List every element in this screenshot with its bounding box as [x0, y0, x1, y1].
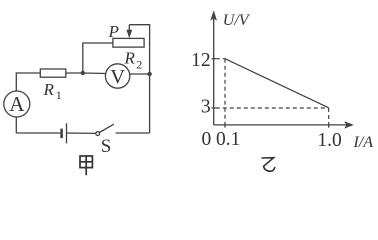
svg-text:P: P: [108, 22, 119, 41]
wire R1 to node A: [66, 72, 83, 74]
label jia (caption of circuit): [80, 156, 92, 175]
switch S pivot: [96, 132, 100, 136]
wire ammeter bottom: [15, 117, 17, 133]
svg-text:I/A: I/A: [353, 134, 374, 151]
svg-text:0.1: 0.1: [216, 129, 240, 150]
graph axes: [212, 17, 347, 128]
svg-text:A: A: [9, 92, 25, 116]
dashed vertical at I=0.1: [224, 59, 226, 125]
wire voltmeter to right vertical: [130, 73, 150, 75]
resistor R1: [40, 69, 66, 77]
wire slider stem: [128, 25, 130, 32]
tick x=1.0: [328, 125, 330, 128]
y-axis U: [213, 17, 215, 125]
wire node A to voltmeter: [83, 72, 106, 75]
svg-text:S: S: [101, 136, 112, 157]
dashed horizontal at U=3: [216, 107, 329, 109]
svg-text:U/V: U/V: [223, 12, 251, 29]
wire battery to switch: [67, 132, 96, 134]
wire switch to right corner: [116, 132, 150, 134]
switch S lever: [99, 124, 114, 132]
wire bottom left: [16, 132, 60, 134]
wire left top horizontal (R1 row, left segment): [16, 73, 40, 91]
y-axis arrowhead: [210, 10, 217, 20]
slider arrowhead P: [126, 30, 132, 39]
U-I characteristic line: [225, 59, 329, 108]
node junction dot left: [81, 71, 85, 75]
tick y=12: [212, 58, 216, 60]
tick y=3: [212, 107, 216, 109]
rheostat R2 body: [113, 38, 144, 47]
label yi (caption of graph): [262, 158, 275, 172]
tick x=0.1: [224, 125, 226, 128]
svg-text:1: 1: [56, 88, 62, 102]
svg-text:2: 2: [136, 57, 142, 71]
svg-text:0: 0: [202, 129, 212, 150]
svg-text:R: R: [43, 80, 55, 99]
battery B1 negative plate: [60, 129, 63, 139]
dashed vertical at I=1.0: [328, 108, 330, 125]
svg-text:1.0: 1.0: [317, 130, 341, 151]
node junction dot right: [147, 72, 151, 76]
ammeter A1: [4, 91, 30, 117]
svg-text:3: 3: [201, 96, 211, 117]
wire right vertical: [129, 25, 149, 133]
x-axis arrowhead: [344, 121, 354, 128]
x-axis I: [214, 124, 347, 126]
voltmeter V1: [105, 64, 129, 88]
svg-text:V: V: [110, 66, 125, 88]
dashed horizontal at U=12: [216, 58, 225, 60]
svg-text:R: R: [124, 49, 136, 68]
wire R2 left terminal: [83, 43, 113, 73]
svg-text:12: 12: [191, 50, 211, 71]
battery B1 positive plate: [66, 123, 68, 143]
